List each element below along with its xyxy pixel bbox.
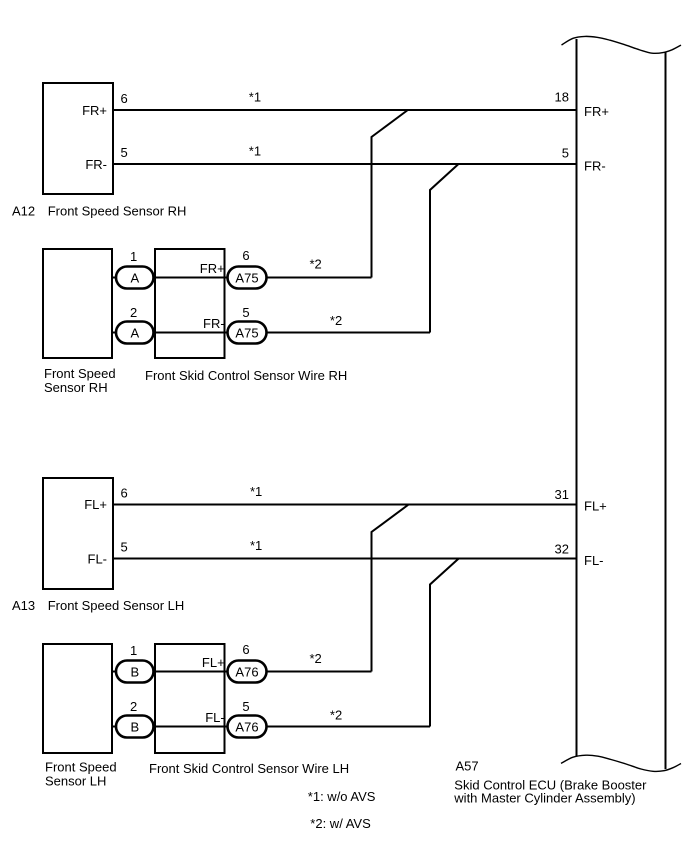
wire riser FR+ branch <box>372 110 408 278</box>
connector box A12 Front Speed Sensor RH <box>43 83 113 194</box>
svg-text:A: A <box>130 326 139 341</box>
svg-text:FR-: FR- <box>85 157 107 172</box>
svg-text:A: A <box>130 271 139 286</box>
svg-text:31: 31 <box>555 487 569 502</box>
svg-text:FL+: FL+ <box>202 655 225 670</box>
svg-text:6: 6 <box>121 91 128 106</box>
svg-text:A75: A75 <box>235 271 258 286</box>
svg-text:*2: w/ AVS: *2: w/ AVS <box>310 816 371 831</box>
svg-text:1: 1 <box>130 249 137 264</box>
svg-text:A57: A57 <box>456 758 479 773</box>
wire riser FL- branch <box>430 559 459 727</box>
svg-text:FL+: FL+ <box>584 499 607 514</box>
svg-text:FL+: FL+ <box>84 497 107 512</box>
svg-text:B: B <box>130 720 139 735</box>
svg-text:2: 2 <box>130 699 137 714</box>
wire row FR- through connectors <box>112 332 430 334</box>
ECU A57 torn bottom edge <box>561 755 681 771</box>
svg-text:FR+: FR+ <box>200 261 225 276</box>
ECU A57 right edge <box>665 52 667 769</box>
svg-text:FR+: FR+ <box>82 103 107 118</box>
svg-text:Front Skid Control Sensor Wire: Front Skid Control Sensor Wire RH <box>145 368 347 383</box>
svg-text:5: 5 <box>242 699 249 714</box>
svg-text:5: 5 <box>121 145 128 160</box>
ECU A57 torn top edge <box>562 36 682 53</box>
svg-text:*2: *2 <box>330 708 342 723</box>
connector box Front Skid Control Sensor Wire RH <box>155 249 225 358</box>
svg-text:*1: *1 <box>250 484 262 499</box>
svg-text:*1: *1 <box>249 144 261 159</box>
svg-text:5: 5 <box>242 305 249 320</box>
wire riser FL+ branch <box>372 505 409 672</box>
connector oval A (pin 2) <box>116 322 154 344</box>
svg-text:A76: A76 <box>235 720 258 735</box>
wire row FR+ through connectors <box>112 277 372 279</box>
svg-text:Front Speed: Front Speed <box>44 366 116 381</box>
wire FL+ from A13 to ECU <box>114 504 577 506</box>
svg-text:18: 18 <box>555 90 569 105</box>
svg-text:*1: *1 <box>250 538 262 553</box>
connector oval A (pin 1) <box>116 267 154 289</box>
svg-text:A75: A75 <box>235 326 258 341</box>
svg-text:FR-: FR- <box>584 159 606 174</box>
svg-text:Front Speed: Front Speed <box>45 760 117 775</box>
svg-text:6: 6 <box>242 248 249 263</box>
svg-text:6: 6 <box>242 642 249 657</box>
svg-text:FR+: FR+ <box>584 104 609 119</box>
wire row FL+ through connectors <box>112 671 372 673</box>
connector box A13 Front Speed Sensor LH <box>43 478 113 589</box>
svg-text:FL-: FL- <box>584 553 604 568</box>
svg-text:FL-: FL- <box>205 710 225 725</box>
wire FL- from A13 to ECU <box>114 558 577 560</box>
sensor box Front Speed Sensor RH <box>43 249 112 358</box>
connector oval B (pin 1) <box>116 661 154 683</box>
connector oval A75 (pin 6) <box>228 267 267 289</box>
ECU A57 left edge <box>576 39 578 756</box>
svg-text:5: 5 <box>121 540 128 555</box>
sensor box Front Speed Sensor LH <box>43 644 112 753</box>
svg-text:1: 1 <box>130 643 137 658</box>
svg-text:A12: A12 <box>12 204 35 219</box>
svg-text:6: 6 <box>121 486 128 501</box>
connector oval B (pin 2) <box>116 716 154 738</box>
svg-text:2: 2 <box>130 305 137 320</box>
wire riser FR- branch <box>430 164 459 333</box>
svg-text:with Master Cylinder Assembly): with Master Cylinder Assembly) <box>453 790 635 805</box>
svg-text:Front Speed Sensor LH: Front Speed Sensor LH <box>48 598 185 613</box>
svg-text:Front Speed Sensor RH: Front Speed Sensor RH <box>48 204 187 219</box>
wire row FL- through connectors <box>112 726 430 728</box>
svg-text:FL-: FL- <box>88 551 108 566</box>
connector oval A76 (pin 6) <box>228 661 267 683</box>
svg-text:32: 32 <box>555 541 569 556</box>
connector oval A76 (pin 5) <box>228 716 267 738</box>
svg-text:FR-: FR- <box>203 316 225 331</box>
connector box Front Skid Control Sensor Wire LH <box>155 644 225 753</box>
svg-text:Sensor LH: Sensor LH <box>45 774 106 789</box>
svg-text:Sensor RH: Sensor RH <box>44 380 108 395</box>
svg-text:*2: *2 <box>310 651 322 666</box>
connector oval A75 (pin 5) <box>228 322 267 344</box>
svg-text:*1: w/o AVS: *1: w/o AVS <box>308 789 376 804</box>
svg-text:*2: *2 <box>310 257 322 272</box>
svg-text:B: B <box>130 665 139 680</box>
svg-text:A76: A76 <box>235 665 258 680</box>
svg-text:*1: *1 <box>249 89 261 104</box>
svg-text:Front Skid Control Sensor Wire: Front Skid Control Sensor Wire LH <box>149 761 349 776</box>
svg-text:A13: A13 <box>12 598 35 613</box>
svg-text:*2: *2 <box>330 313 342 328</box>
wire FR- from A12 to ECU <box>114 163 577 165</box>
wire FR+ from A12 to ECU <box>114 109 577 111</box>
svg-text:5: 5 <box>562 146 569 161</box>
